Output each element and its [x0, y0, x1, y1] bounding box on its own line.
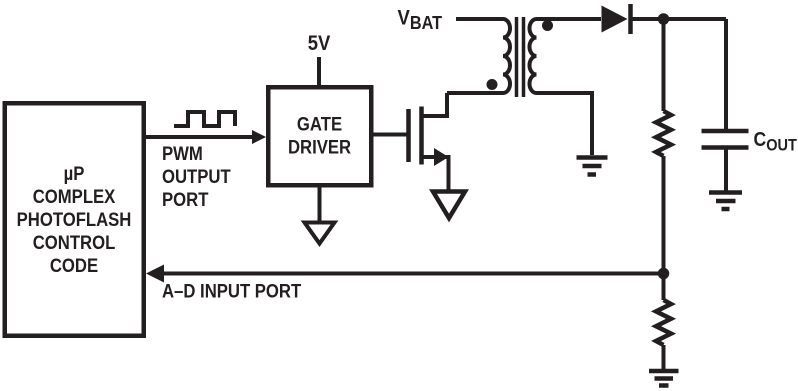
svg-text:OUTPUT: OUTPUT [162, 166, 231, 187]
svg-text:5V: 5V [308, 32, 331, 55]
svg-text:GATE: GATE [297, 114, 342, 135]
svg-text:COMPLEX: COMPLEX [33, 186, 116, 207]
svg-text:VBAT: VBAT [398, 6, 443, 33]
svg-text:PHOTOFLASH: PHOTOFLASH [17, 209, 132, 230]
svg-text:PORT: PORT [162, 189, 208, 210]
svg-text:µP: µP [64, 163, 85, 184]
svg-text:A–D INPUT PORT: A–D INPUT PORT [162, 281, 301, 302]
svg-text:CONTROL: CONTROL [33, 232, 116, 253]
svg-text:COUT: COUT [754, 128, 798, 155]
svg-text:CODE: CODE [50, 255, 98, 276]
svg-text:PWM: PWM [162, 143, 203, 164]
svg-text:DRIVER: DRIVER [288, 137, 351, 158]
